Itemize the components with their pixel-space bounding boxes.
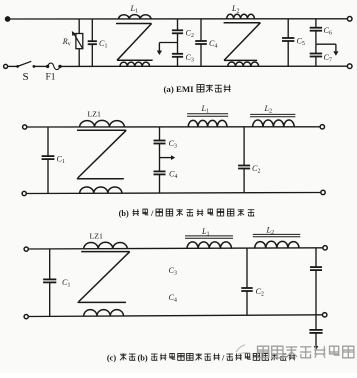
capacitor C1 (b) bbox=[42, 127, 55, 193]
label L1 (a) bbox=[130, 4, 139, 15]
capacitor C2 (c) bbox=[241, 248, 252, 315]
svg-text:C4: C4 bbox=[169, 170, 177, 181]
inductor L1 with core bar (c) bbox=[185, 236, 233, 249]
node: output terminal bottom-right (a) bbox=[347, 64, 352, 69]
svg-text:C3: C3 bbox=[186, 53, 194, 64]
capacitor C4 (a) bbox=[195, 19, 207, 66]
label C5 (a) bbox=[297, 37, 305, 48]
inductor L1 with core bar (b) bbox=[187, 114, 228, 127]
caption (b) common/differential mode filter typical circuit bbox=[119, 209, 255, 218]
label C4 (b) bbox=[169, 170, 177, 181]
svg-text:C5: C5 bbox=[297, 37, 305, 48]
node: input terminal top-left (b) bbox=[23, 125, 27, 129]
capacitor C6 (a) bbox=[310, 19, 322, 44]
inductor LZ1 common-mode choke (b) bbox=[77, 120, 126, 193]
ground arrow between C2 C3 bbox=[157, 43, 178, 56]
label L1 (c) bbox=[201, 227, 210, 238]
node: AC input terminal top-left (a) bbox=[6, 17, 10, 21]
watermark text bottom-right bbox=[236, 345, 354, 358]
svg-text:L1: L1 bbox=[201, 104, 210, 115]
node: AC input terminal bottom-left (a) bbox=[4, 64, 8, 68]
label C6 (a) bbox=[324, 26, 332, 37]
label LZ1 (b) bbox=[88, 110, 102, 119]
inductor LZ1 common-mode choke (c) bbox=[78, 242, 130, 316]
svg-text:/: / bbox=[221, 353, 225, 362]
svg-text:(a) EMI: (a) EMI bbox=[164, 84, 195, 94]
label L2 (c) bbox=[266, 226, 275, 237]
svg-text:C6: C6 bbox=[324, 26, 332, 37]
svg-text:LZ1: LZ1 bbox=[90, 232, 104, 241]
label C4 floating (c) bbox=[169, 293, 177, 304]
wire: circuit (b) bottom rail bbox=[26, 193, 321, 194]
label L2 (a) bbox=[231, 4, 240, 15]
label C2 (b) bbox=[252, 164, 260, 175]
capacitor C5 (a) bbox=[282, 19, 294, 66]
svg-text:(c): (c) bbox=[107, 353, 116, 362]
ground arrow right of C6 C7 bbox=[316, 44, 339, 56]
svg-text:L2: L2 bbox=[231, 4, 240, 15]
svg-text:C4: C4 bbox=[209, 39, 217, 50]
capacitor C2 (a) bbox=[172, 19, 183, 43]
label L1 (b) bbox=[201, 104, 210, 115]
wire: circuit (c) bottom rail bbox=[28, 315, 322, 317]
caption (c) modified common/differential mode filter circuit bbox=[107, 353, 295, 362]
node: output terminal top-right (a) bbox=[347, 17, 352, 22]
inductor L2 with core bar (b) bbox=[250, 114, 295, 127]
fuse F1 bbox=[46, 63, 62, 69]
svg-text:(b): (b) bbox=[119, 209, 129, 218]
label L2 (b) bbox=[264, 104, 273, 115]
wire: circuit (a) top rail bbox=[10, 18, 348, 20]
label C4 (a) bbox=[209, 39, 217, 50]
svg-text:C7: C7 bbox=[324, 53, 332, 64]
label C2 (c) bbox=[256, 287, 264, 298]
label F1 bbox=[46, 73, 56, 83]
wire: circuit (a) bottom rail bbox=[60, 65, 347, 67]
node: output terminal bottom-right (c) bbox=[323, 313, 327, 317]
node: output terminal top-right (c) bbox=[323, 246, 327, 250]
wire: bottom-left lead to switch (a) bbox=[8, 65, 17, 67]
node: output terminal bottom-right (b) bbox=[321, 190, 325, 194]
capacitor C1 (c) bbox=[43, 249, 56, 317]
node: input terminal top-left (c) bbox=[24, 247, 28, 251]
svg-text:Rv: Rv bbox=[62, 37, 71, 48]
varistor Rv bbox=[72, 19, 83, 66]
svg-text:S: S bbox=[23, 71, 29, 83]
ground arrow bottom right (c) bbox=[314, 346, 319, 350]
capacitor C2 (b) bbox=[238, 127, 250, 193]
inductor L2 with core bar (c) bbox=[253, 234, 300, 248]
ground arrow between C3 C4 (b) bbox=[160, 155, 176, 160]
node: output terminal top-right (b) bbox=[320, 125, 324, 129]
svg-text:/: / bbox=[150, 209, 154, 218]
svg-text:C3: C3 bbox=[169, 139, 177, 150]
svg-text:F1: F1 bbox=[46, 73, 56, 83]
svg-text:LZ1: LZ1 bbox=[88, 110, 102, 119]
svg-text:C3: C3 bbox=[169, 266, 177, 277]
capacitor C1 (a) bbox=[88, 19, 97, 66]
svg-text:L2: L2 bbox=[264, 104, 273, 115]
inductor L1 common-mode choke (a) bbox=[116, 15, 153, 67]
capacitor C3 (b) bbox=[154, 127, 166, 158]
capacitor C3 (a) bbox=[172, 43, 183, 67]
svg-text:C2: C2 bbox=[256, 287, 264, 298]
svg-text:C4: C4 bbox=[169, 293, 177, 304]
node: input terminal bottom-left (b) bbox=[22, 191, 26, 195]
label C3 (a) bbox=[186, 53, 194, 64]
label Rv bbox=[62, 37, 71, 48]
switch S bbox=[16, 61, 46, 68]
label C3 (b) bbox=[169, 139, 177, 150]
label C7 (a) bbox=[324, 53, 332, 64]
svg-text:(b): (b) bbox=[138, 353, 148, 362]
svg-text:C1: C1 bbox=[62, 278, 70, 289]
label S bbox=[23, 71, 29, 83]
capacitor Y lower right (c) bbox=[309, 315, 322, 346]
svg-text:L1: L1 bbox=[130, 4, 139, 15]
label C2 (a) bbox=[186, 29, 194, 40]
capacitor C7 (a) bbox=[310, 44, 322, 66]
wire: circuit (c) top rail bbox=[28, 248, 323, 249]
svg-text:C1: C1 bbox=[57, 155, 65, 166]
capacitor Y upper right (c) bbox=[310, 248, 322, 315]
svg-text:C2: C2 bbox=[186, 29, 194, 40]
svg-text:C2: C2 bbox=[252, 164, 260, 175]
label C1 (c) bbox=[62, 278, 70, 289]
inductor L2 common-mode choke (a) bbox=[224, 14, 261, 66]
caption (a) EMI filter circuit bbox=[164, 84, 231, 94]
node: input terminal bottom-left (c) bbox=[24, 315, 28, 319]
wire: circuit (b) top rail bbox=[27, 126, 320, 128]
label C1 (a) bbox=[99, 39, 107, 50]
label C1 (b) bbox=[57, 155, 65, 166]
label LZ1 (c) bbox=[90, 232, 104, 241]
svg-text:C1: C1 bbox=[99, 39, 107, 50]
label C3 floating (c) bbox=[169, 266, 177, 277]
capacitor C4 (b) bbox=[154, 158, 166, 194]
